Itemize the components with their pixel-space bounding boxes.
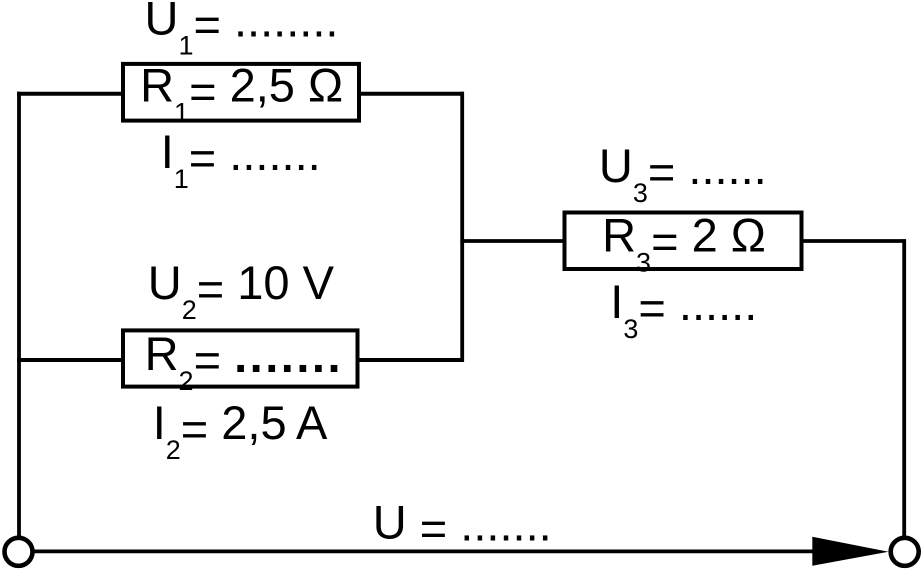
wire top branch right segment	[359, 92, 464, 96]
svg-text:R1= 2,5 Ω: R1= 2,5 Ω	[140, 58, 343, 127]
wire left vertical bus	[17, 92, 21, 537]
svg-text:U1= ........: U1= ........	[145, 0, 339, 61]
resistor R3	[565, 213, 802, 270]
resistor R1	[123, 64, 359, 121]
wire top branch left segment	[17, 92, 123, 96]
terminal right	[891, 538, 919, 566]
arrow current direction	[812, 537, 888, 566]
resistor R2	[123, 330, 358, 386]
wire bottom return	[33, 550, 814, 554]
svg-text:U3= ......: U3= ......	[599, 139, 767, 208]
svg-text:I2= 2,5 A: I2= 2,5 A	[153, 396, 328, 465]
wire second branch left segment	[17, 358, 123, 362]
wire R3 to right vertical	[802, 239, 906, 243]
wire junction to R3	[460, 239, 564, 243]
wire second branch right segment	[358, 358, 465, 362]
wire right vertical	[902, 239, 906, 537]
svg-text:U = .......: U = .......	[373, 496, 552, 556]
svg-text:I1= .......: I1= .......	[161, 125, 321, 194]
svg-text:I3= ......: I3= ......	[610, 275, 757, 344]
wire middle vertical junction	[460, 92, 464, 362]
terminal left	[5, 538, 33, 566]
svg-text:U2= 10 V: U2= 10 V	[148, 256, 335, 325]
